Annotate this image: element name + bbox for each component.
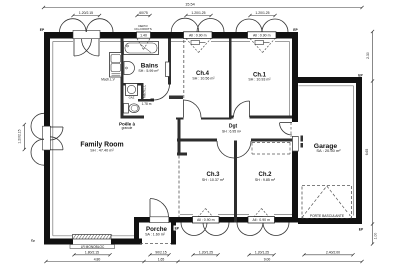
dimension 1.00 bottom right — [371, 224, 378, 246]
dimension 1.20/1.25 ch4 window — [184, 11, 212, 17]
svg-text:2.40/2.00: 2.40/2.00 — [326, 251, 340, 255]
label Porche — [145, 226, 167, 237]
label 1.78m — [142, 102, 152, 106]
door garage from house — [280, 123, 299, 152]
svg-text:60/75: 60/75 — [139, 11, 148, 15]
label box bath window 1.40 — [137, 32, 151, 38]
inner line garage — [299, 86, 354, 216]
dimension 60/75 bath window — [135, 11, 151, 17]
closet ch2 dashed — [252, 143, 290, 155]
label Ch1 — [248, 72, 271, 81]
label EP top-left — [40, 28, 45, 32]
dashed line dgt east — [290, 123, 292, 138]
svg-text:SH : 47.40 m²: SH : 47.40 m² — [90, 148, 114, 152]
boiler gaz — [126, 84, 138, 100]
dimension 4.80 — [44, 258, 145, 264]
wall garage north — [292, 77, 362, 83]
svg-text:Dgt: Dgt — [229, 123, 238, 129]
french door left-wall shutters — [31, 113, 44, 165]
svg-text:Mach.L.V: Mach.L.V — [101, 78, 115, 82]
kitchen sink and dishwasher — [110, 53, 122, 78]
wall left (west facade) — [44, 32, 50, 245]
wall ch3/ch2 — [234, 141, 237, 223]
dimension 1.80/2.15 lr window — [72, 251, 111, 257]
wall south bedrooms/porch — [134, 217, 298, 223]
door bains — [154, 85, 170, 101]
label box ch3 window — [193, 217, 220, 224]
label Ep bottom-left — [31, 239, 35, 243]
inner line family room — [53, 42, 134, 236]
svg-text:Mach.L.L: Mach.L.L — [143, 85, 147, 98]
door frame french door left — [43, 126, 51, 150]
label box ch4 window — [184, 32, 213, 39]
label Ch2 — [255, 172, 276, 182]
svg-text:4.80: 4.80 — [94, 258, 101, 262]
dimension 1.20/2.15 french door top — [71, 11, 101, 17]
svg-text:SH : 10.37 m²: SH : 10.37 m² — [202, 178, 225, 182]
french door left-wall leaves — [50, 127, 63, 150]
svg-text:All : 0.90 m: All : 0.90 m — [253, 33, 271, 37]
svg-text:LR MONOBLOC: LR MONOBLOC — [81, 245, 105, 249]
french door top-left shutters — [59, 19, 113, 32]
dimension 90/2.15 entry door — [148, 251, 170, 257]
inner line ch4 ch1 top — [171, 41, 290, 43]
svg-text:Ep: Ep — [31, 239, 35, 243]
wall garage south — [298, 218, 362, 224]
wall corridor north ch1 — [231, 116, 292, 119]
label EP porch — [174, 226, 181, 231]
wall wc north — [121, 83, 144, 86]
dimension 1.20/1.25 ch1 window — [248, 11, 276, 17]
label Ch3 — [202, 172, 225, 182]
porch open edge dashed — [140, 243, 171, 245]
wall east main house — [292, 32, 298, 223]
svg-text:90/2.15: 90/2.15 — [155, 251, 166, 255]
ch1 window dashed swing — [250, 39, 275, 53]
svg-text:15.54: 15.54 — [185, 3, 195, 7]
garage door porte basculante — [302, 186, 352, 219]
label EP garage bottom-right — [359, 228, 364, 232]
ch2 window shutters — [237, 223, 289, 236]
svg-text:Family Room: Family Room — [80, 141, 123, 148]
wall bains south — [138, 99, 154, 102]
ch3 window shutters — [181, 223, 229, 236]
label Bains — [138, 63, 159, 73]
door frame french door top — [73, 31, 100, 39]
label Mach.L.L — [143, 85, 147, 98]
wall corridor north ch4 — [176, 118, 232, 120]
svg-text:1.65: 1.65 — [158, 258, 165, 262]
svg-text:granule: granule — [122, 126, 133, 130]
svg-text:Chs DROITS: Chs DROITS — [134, 27, 152, 31]
closet line ch3 west dashed — [178, 156, 180, 218]
window LR MONOBLOC — [70, 235, 115, 250]
wall wc east — [141, 86, 144, 101]
inner line ch1 east — [289, 42, 291, 116]
svg-text:1.00: 1.00 — [374, 233, 378, 240]
dimension overall 15.54 top — [42, 3, 364, 10]
washbasin bains — [124, 62, 135, 75]
ch4 window shutters — [171, 18, 224, 32]
toilet wc — [124, 104, 140, 114]
label box ch2 window — [248, 217, 275, 224]
dimension 1.20/1.25 ch2 window bottom — [247, 251, 275, 257]
svg-text:9.00: 9.00 — [264, 258, 271, 262]
inner line bedrooms south — [180, 214, 292, 216]
dimension 1.20/1.25 ch3 window bottom — [191, 251, 219, 257]
svg-text:1.20/1.25: 1.20/1.25 — [255, 11, 269, 15]
garage doorframe marks — [301, 136, 304, 148]
doors ch3 ch2 double — [217, 141, 251, 158]
porch pillar left — [134, 221, 139, 245]
svg-text:All : 0.90 m: All : 0.90 m — [252, 218, 270, 222]
radiator bains east wall — [166, 62, 170, 77]
entry door porch — [150, 199, 169, 218]
svg-text:SH : 10.56 m²: SH : 10.56 m² — [192, 76, 215, 80]
ch1 window shutters — [236, 19, 288, 32]
porch pillar right — [171, 221, 176, 245]
svg-text:1.78 m: 1.78 m — [142, 102, 152, 106]
closet shelf ch4 — [169, 96, 183, 100]
wall bath west P1 — [121, 39, 124, 119]
svg-text:1.80/2.15: 1.80/2.15 — [85, 251, 99, 255]
dimension 6.65 garage right — [365, 81, 374, 226]
svg-text:1.20/1.25: 1.20/1.25 — [255, 251, 269, 255]
french door top-left leaves — [74, 39, 99, 57]
svg-text:SH : 5.99 m²: SH : 5.99 m² — [138, 69, 159, 73]
door frame entry door porch — [150, 217, 169, 223]
label EP top-right — [293, 28, 298, 32]
svg-text:SA : 1.60 m²: SA : 1.60 m² — [145, 232, 166, 236]
wall wc south — [121, 116, 145, 119]
wall bains/ch4 — [168, 39, 171, 85]
svg-text:SH : 9.85 m²: SH : 9.85 m² — [255, 178, 276, 182]
svg-text:1.20/2.15: 1.20/2.15 — [18, 129, 22, 143]
svg-text:6.65: 6.65 — [365, 149, 369, 156]
bath window dashed swing — [137, 39, 150, 50]
wall corridor south — [177, 139, 292, 142]
label Family Room — [80, 141, 123, 152]
label box ch1 window — [248, 32, 277, 39]
svg-text:All : 0.90 m: All : 0.90 m — [189, 33, 207, 37]
svg-text:SA : 20.50 m²: SA : 20.50 m² — [316, 148, 341, 153]
wall ch3 west — [177, 119, 187, 156]
label Ch4 — [192, 71, 215, 81]
label Garage — [314, 143, 342, 153]
bathtub — [124, 42, 159, 55]
wall bottom family room — [44, 239, 142, 245]
svg-text:GAZ: GAZ — [129, 95, 135, 99]
ch4 window dashed swing — [186, 39, 211, 53]
dimension 1.20/2.15 left french door — [18, 123, 26, 151]
wall garage east — [356, 77, 362, 224]
closet ch4 dashed — [183, 40, 185, 99]
svg-text:PORTE BASCULANTE: PORTE BASCULANTE — [310, 214, 345, 218]
svg-text:SH : 10.93 m²: SH : 10.93 m² — [248, 78, 271, 82]
dimension 9.00 — [178, 258, 364, 264]
dimension 1.65 — [144, 258, 180, 264]
svg-text:All : 0.90 m: All : 0.90 m — [197, 218, 215, 222]
svg-text:1.20/2.15: 1.20/2.15 — [79, 11, 93, 15]
wall top (north facade) — [44, 32, 298, 39]
dimension 2.40/2.00 garage door — [302, 251, 354, 257]
label EP garage top-right — [358, 74, 363, 78]
door ch4 — [184, 100, 202, 118]
label Poele a granule — [119, 121, 136, 130]
door ch1 — [234, 101, 250, 117]
svg-text:1.40: 1.40 — [140, 33, 147, 37]
label DEPOLI note — [134, 24, 152, 31]
svg-text:1.20/1.25: 1.20/1.25 — [191, 11, 205, 15]
ch2 window dashed swing — [249, 209, 274, 223]
svg-text:1.20/1.25: 1.20/1.25 — [199, 251, 213, 255]
wall ch4/ch1 — [229, 39, 232, 119]
svg-text:SH : 6.95 m²: SH : 6.95 m² — [222, 129, 242, 133]
label Mach.L.V — [101, 78, 115, 82]
label Dgt — [222, 123, 242, 133]
dimension 2.30 right top — [366, 30, 374, 83]
svg-text:2.30: 2.30 — [366, 52, 370, 59]
ch3 window dashed swing — [193, 209, 218, 223]
